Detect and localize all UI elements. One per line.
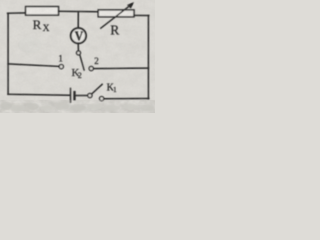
wire R to top-right corner (134, 14, 149, 16)
rheostat R box (98, 10, 134, 17)
wire middle right (94, 67, 149, 70)
wire K1 to bottom-right corner (104, 98, 149, 100)
rheostat arrowhead (127, 2, 134, 8)
wire bottom-left to battery (8, 93, 70, 96)
node junction above voltmeter (77, 12, 79, 29)
paper background (0, 0, 155, 113)
battery long plate (70, 88, 72, 102)
wire middle left (8, 64, 59, 67)
wire top-left segment (8, 12, 26, 14)
contact 1 terminal (59, 65, 63, 69)
K1 right terminal (100, 97, 104, 101)
paper grain (0, 0, 155, 113)
scan noise blobs (2, 36, 153, 112)
contact 2 terminal (89, 66, 93, 70)
wire voltmeter to K2 pivot (77, 43, 79, 51)
resistor RX box (26, 7, 59, 16)
K2 blade (80, 55, 84, 70)
K1 left terminal (88, 93, 92, 97)
wire right side (147, 16, 149, 99)
voltmeter U1 circle (71, 28, 86, 43)
rheostat arrow (101, 4, 132, 28)
K2 pivot terminal (77, 51, 81, 55)
wire RX to junction to R (59, 10, 99, 13)
wire battery to K1 (76, 95, 88, 97)
battery short plate (73, 92, 75, 99)
wire left side (7, 13, 9, 94)
K1 blade (92, 84, 102, 94)
